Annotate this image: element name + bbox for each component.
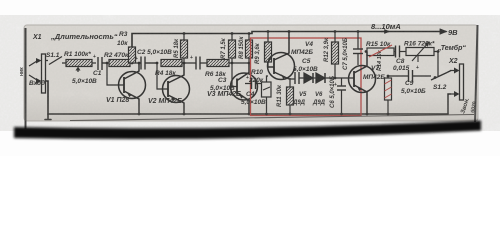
current arrow on rail bbox=[381, 31, 389, 33]
connector X1 bbox=[29, 54, 46, 93]
page background bbox=[0, 0, 500, 156]
bottom rail bbox=[48, 113, 448, 115]
transistor V2 bbox=[163, 63, 190, 114]
switch S1.2 bbox=[431, 71, 451, 81]
transistor V1 bbox=[119, 63, 146, 114]
resistor R6 bbox=[207, 60, 229, 67]
resistor R11 bbox=[277, 78, 294, 115]
capacitor C4 bbox=[245, 78, 262, 89]
resistor R5 bbox=[174, 32, 188, 63]
right scan edge bbox=[475, 25, 478, 122]
connector X2 bbox=[450, 64, 464, 100]
node base V1 bbox=[106, 62, 109, 65]
resistor R10 (trimmer) bbox=[262, 76, 272, 115]
left scan edge bbox=[25, 28, 27, 129]
resistor R8 bbox=[239, 32, 253, 63]
diode V5 bbox=[304, 73, 316, 83]
resistor R15 bbox=[365, 48, 396, 56]
bottom dark bar bbox=[14, 121, 481, 140]
capacitor C1 bbox=[98, 57, 107, 70]
transistor V7 bbox=[349, 52, 376, 115]
capacitor C2 bbox=[141, 57, 157, 70]
diode V6 bbox=[316, 73, 354, 83]
transistor V4 bbox=[268, 32, 295, 80]
resistor R14 bbox=[377, 49, 392, 115]
ground stub at X1 node bbox=[45, 114, 51, 120]
capacitor C5 bbox=[289, 72, 304, 84]
resistor R12 bbox=[324, 30, 339, 79]
resistor R16 (potentiometer) bbox=[406, 42, 434, 62]
capacitor C9 bbox=[388, 70, 431, 82]
wire to V1 base bbox=[107, 63, 124, 85]
wire rail to lower pin bbox=[448, 94, 451, 114]
resistor R2 bbox=[109, 60, 130, 67]
resistor R3 bbox=[129, 47, 136, 63]
top rail bbox=[132, 32, 440, 48]
resistor R1 (potentiometer) bbox=[66, 60, 96, 73]
wire bbox=[130, 62, 141, 64]
supply arrow to 9V bbox=[440, 31, 446, 33]
red highlight box bbox=[251, 38, 362, 116]
resistor R9 bbox=[255, 30, 272, 68]
resistor R7 bbox=[221, 32, 236, 63]
switch S1.1 bbox=[46, 57, 67, 65]
bottom shading bbox=[24, 95, 478, 121]
capacitor C8 (series) bbox=[396, 46, 407, 58]
film grain bbox=[24, 25, 478, 121]
red marks over R15 bbox=[369, 45, 392, 57]
capacitor C7 bbox=[353, 32, 363, 66]
polarity plus marks bbox=[93, 54, 419, 88]
scanned photo area bbox=[24, 25, 478, 121]
capacitor C3 bbox=[182, 57, 207, 70]
node R3 bbox=[131, 62, 134, 65]
capacitor C6 bbox=[337, 78, 346, 114]
resistor R4 bbox=[161, 60, 182, 67]
wire R16 node down bbox=[437, 50, 440, 53]
node V3 base bbox=[231, 62, 234, 65]
photo bottom border bbox=[70, 115, 474, 121]
wire node to V2 base bbox=[156, 62, 159, 65]
transistor V3 bbox=[231, 63, 258, 114]
wire X1 lower to rail bbox=[46, 81, 49, 114]
